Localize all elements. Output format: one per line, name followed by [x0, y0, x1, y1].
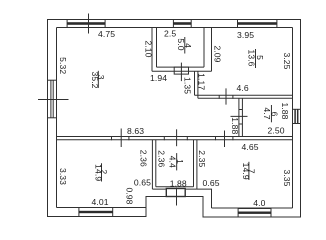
- wall horizontal 8.63: [57, 137, 293, 140]
- window W2 top-middle: [173, 20, 191, 28]
- door D1 tick: [120, 129, 122, 148]
- svg-text:8.63: 8.63: [127, 126, 144, 136]
- room6 label 6/4.7: [262, 105, 279, 122]
- svg-text:2: 2: [99, 169, 109, 174]
- room5 label 5/13.6: [247, 49, 265, 68]
- door D6 tick: [180, 63, 182, 82]
- svg-text:3.25: 3.25: [282, 52, 292, 69]
- exterior outline outer: [48, 20, 301, 218]
- svg-text:3: 3: [96, 75, 106, 80]
- svg-text:3.35: 3.35: [282, 169, 292, 186]
- svg-text:2.35: 2.35: [197, 150, 207, 167]
- door D4 tick: [225, 88, 227, 104]
- door D1 room2 opening: [112, 137, 129, 141]
- svg-text:1.88: 1.88: [280, 102, 290, 119]
- svg-text:0.65: 0.65: [134, 178, 151, 188]
- room1 label 1/4.4: [168, 153, 185, 170]
- svg-text:2.09: 2.09: [213, 45, 223, 62]
- door D5 room6 opening: [239, 110, 243, 125]
- exterior inner right: [292, 28, 294, 209]
- room7 label 7/14.9: [241, 162, 257, 180]
- wall room6 left: [239, 98, 243, 136]
- room4 label 4/5.0: [176, 37, 193, 54]
- svg-text:4.01: 4.01: [92, 197, 109, 207]
- svg-text:1.17: 1.17: [197, 73, 207, 90]
- svg-text:4.0: 4.0: [253, 198, 265, 208]
- svg-text:1.88: 1.88: [230, 117, 240, 134]
- exterior inner top: [57, 27, 293, 29]
- window W1 center tick: [88, 14, 90, 34]
- door D5 tick: [231, 115, 248, 117]
- svg-text:2.36: 2.36: [156, 150, 166, 167]
- porch tick: [176, 188, 178, 206]
- wall room1 bottom: [152, 187, 197, 189]
- svg-text:5.32: 5.32: [58, 57, 68, 74]
- svg-text:1.88: 1.88: [170, 179, 187, 189]
- porch entry box: [166, 189, 185, 197]
- door D3 tick: [224, 131, 226, 148]
- door D6 room4 opening: [174, 67, 188, 74]
- window W4 center tick: [38, 99, 69, 101]
- svg-text:6: 6: [269, 112, 279, 117]
- window W6 right wall room6: [293, 109, 301, 123]
- svg-text:1: 1: [175, 159, 185, 164]
- door D4 room5 opening: [219, 95, 233, 99]
- wall room4/room5: [204, 28, 212, 72]
- wall connector corridor/room5: [195, 71, 198, 98]
- svg-text:0.65: 0.65: [203, 178, 220, 188]
- wall room4 left: [152, 28, 157, 72]
- svg-text:4: 4: [183, 43, 193, 48]
- svg-text:3.33: 3.33: [58, 168, 68, 185]
- svg-text:3.95: 3.95: [237, 30, 254, 40]
- svg-text:1.94: 1.94: [150, 73, 167, 83]
- svg-text:2.50: 2.50: [268, 126, 285, 136]
- step inner lines bottom-middle: [197, 189, 212, 208]
- door D2 room1 opening: [164, 137, 187, 141]
- wall room5 bottom: [195, 95, 293, 98]
- window W7 bottom room7: [238, 209, 271, 218]
- svg-text:1.35: 1.35: [183, 77, 193, 94]
- svg-text:7: 7: [247, 169, 257, 174]
- svg-text:2.10: 2.10: [143, 40, 153, 57]
- wall room2 right: [152, 140, 155, 189]
- svg-text:4.75: 4.75: [98, 29, 115, 39]
- exterior inner bottom-right: [212, 207, 293, 209]
- svg-text:5: 5: [255, 55, 265, 60]
- window W5 bottom room2: [79, 208, 113, 217]
- exterior inner left: [56, 28, 58, 208]
- svg-text:2.36: 2.36: [139, 150, 149, 167]
- door D3 room7 opening: [216, 137, 233, 141]
- svg-text:4.6: 4.6: [237, 83, 249, 93]
- svg-text:2.5: 2.5: [164, 29, 176, 39]
- window W4 left wall: [48, 80, 57, 118]
- svg-text:0.98: 0.98: [124, 187, 134, 204]
- wall room1 right: [194, 140, 197, 189]
- room2 label 2/14.9: [94, 163, 110, 181]
- room3 label 3/35.2: [90, 71, 106, 89]
- svg-text:4.65: 4.65: [242, 142, 259, 152]
- exterior inner bottom-left: [57, 207, 147, 209]
- door D2 tick: [176, 129, 178, 146]
- window W3 top-right: [238, 20, 277, 28]
- window W1 top-left: [67, 20, 105, 28]
- wall room4 bottom: [152, 67, 212, 71]
